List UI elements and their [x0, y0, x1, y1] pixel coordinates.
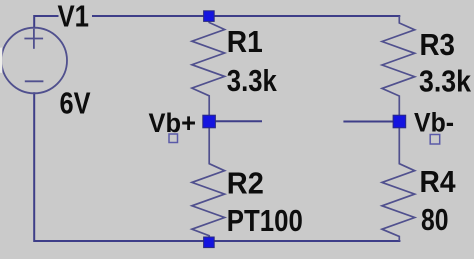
svg-text:6V: 6V [60, 86, 91, 121]
svg-text:R4: R4 [420, 164, 457, 199]
resistor R4 [382, 122, 415, 242]
node junction square top middle [204, 11, 215, 22]
svg-text:V1: V1 [58, 0, 90, 34]
svg-text:R2: R2 [227, 165, 264, 200]
wire top rail [34, 16, 399, 28]
wire bottom rail [34, 93, 399, 241]
voltage source V1 [1, 28, 67, 94]
port marker square under Vb- [430, 135, 440, 145]
node junction square bottom middle [204, 237, 215, 248]
svg-text:80: 80 [421, 202, 449, 237]
svg-text:PT100: PT100 [227, 203, 303, 238]
resistor R3 [382, 16, 415, 122]
resistor R1 [192, 16, 225, 122]
node Vb+ junction square [203, 115, 216, 128]
port marker square under Vb+ [169, 134, 178, 143]
svg-text:Vb+: Vb+ [149, 108, 197, 138]
label V1 (opaque bg over wire) [59, 4, 93, 28]
wire Vb- stub left [344, 121, 399, 123]
svg-text:3.3k: 3.3k [227, 63, 278, 98]
node Vb- junction square [393, 115, 406, 128]
svg-text:3.3k: 3.3k [419, 63, 472, 98]
wire Vb+ stub right [209, 120, 261, 122]
white artifact left edge [0, 48, 2, 74]
resistor R2 [192, 122, 225, 242]
svg-text:R1: R1 [227, 24, 263, 59]
svg-text:R3: R3 [420, 27, 456, 62]
svg-text:Vb-: Vb- [414, 108, 454, 138]
